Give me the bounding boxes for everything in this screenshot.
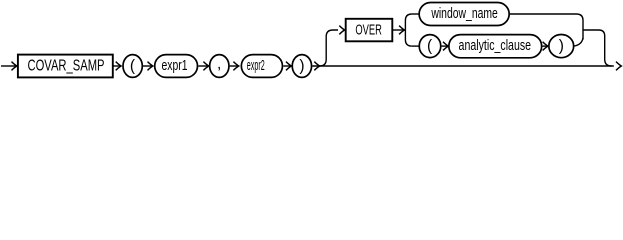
oval expr2	[241, 55, 282, 78]
svg-text:): )	[299, 57, 304, 74]
wire: OVER to split	[392, 29, 404, 31]
svg-text:(: (	[130, 57, 136, 74]
wire: ( to expr1	[142, 65, 152, 67]
circle ( analytic	[419, 35, 441, 58]
arrowhead into ,	[203, 62, 208, 71]
wire: main rail from ) to end	[312, 65, 614, 67]
wire: merge exit to main rail at right	[583, 30, 611, 66]
arrowhead into COVAR_SAMP	[12, 62, 17, 71]
circle )	[292, 55, 311, 78]
circle (	[123, 55, 142, 78]
arrowhead into )	[286, 62, 291, 71]
keyword box OVER	[346, 19, 393, 42]
keyword box COVAR_SAMP	[18, 55, 113, 78]
svg-text:expr1: expr1	[162, 57, 188, 74]
svg-text:(: (	[427, 38, 433, 55]
wire: branch up to OVER row	[320, 30, 338, 66]
wire: , to expr2	[230, 65, 239, 67]
wire: split vertical with arcs	[405, 14, 412, 46]
wire: bottom branch to (	[412, 45, 419, 47]
svg-text:): )	[559, 38, 564, 55]
arrowhead into analytic_clause	[442, 45, 448, 47]
wire: start rail segment	[1, 65, 16, 67]
oval expr1	[155, 55, 198, 78]
arrowhead on rail before branch	[314, 62, 319, 71]
wire: expr1 to ,	[198, 65, 208, 67]
oval window_name	[419, 3, 509, 26]
circle ,	[210, 55, 229, 78]
arrowhead at split junction	[399, 26, 404, 35]
arrowhead into expr1	[148, 62, 153, 71]
wire: top branch to window_name	[412, 13, 420, 15]
svg-text:,: ,	[217, 56, 221, 73]
svg-text:COVAR_SAMP: COVAR_SAMP	[28, 57, 105, 74]
wire: box to (	[113, 65, 121, 67]
wire: expr2 to )	[283, 65, 291, 67]
arrowhead into expr2	[233, 62, 238, 71]
arrowhead into OVER	[339, 26, 344, 35]
svg-text:analytic_clause: analytic_clause	[459, 37, 532, 54]
circle ) analytic (wide)	[549, 35, 574, 58]
arrowhead final at right edge	[616, 62, 621, 71]
svg-text:OVER: OVER	[355, 22, 382, 39]
svg-text:expr2: expr2	[247, 57, 265, 74]
arrowhead into (	[116, 62, 121, 71]
wire: window_name to right merge vertical	[510, 14, 583, 40]
wire: ) up to merge vertical	[574, 38, 583, 46]
arrowhead into )	[543, 45, 548, 47]
svg-text:window_name: window_name	[431, 5, 498, 22]
oval analytic_clause	[449, 35, 542, 58]
